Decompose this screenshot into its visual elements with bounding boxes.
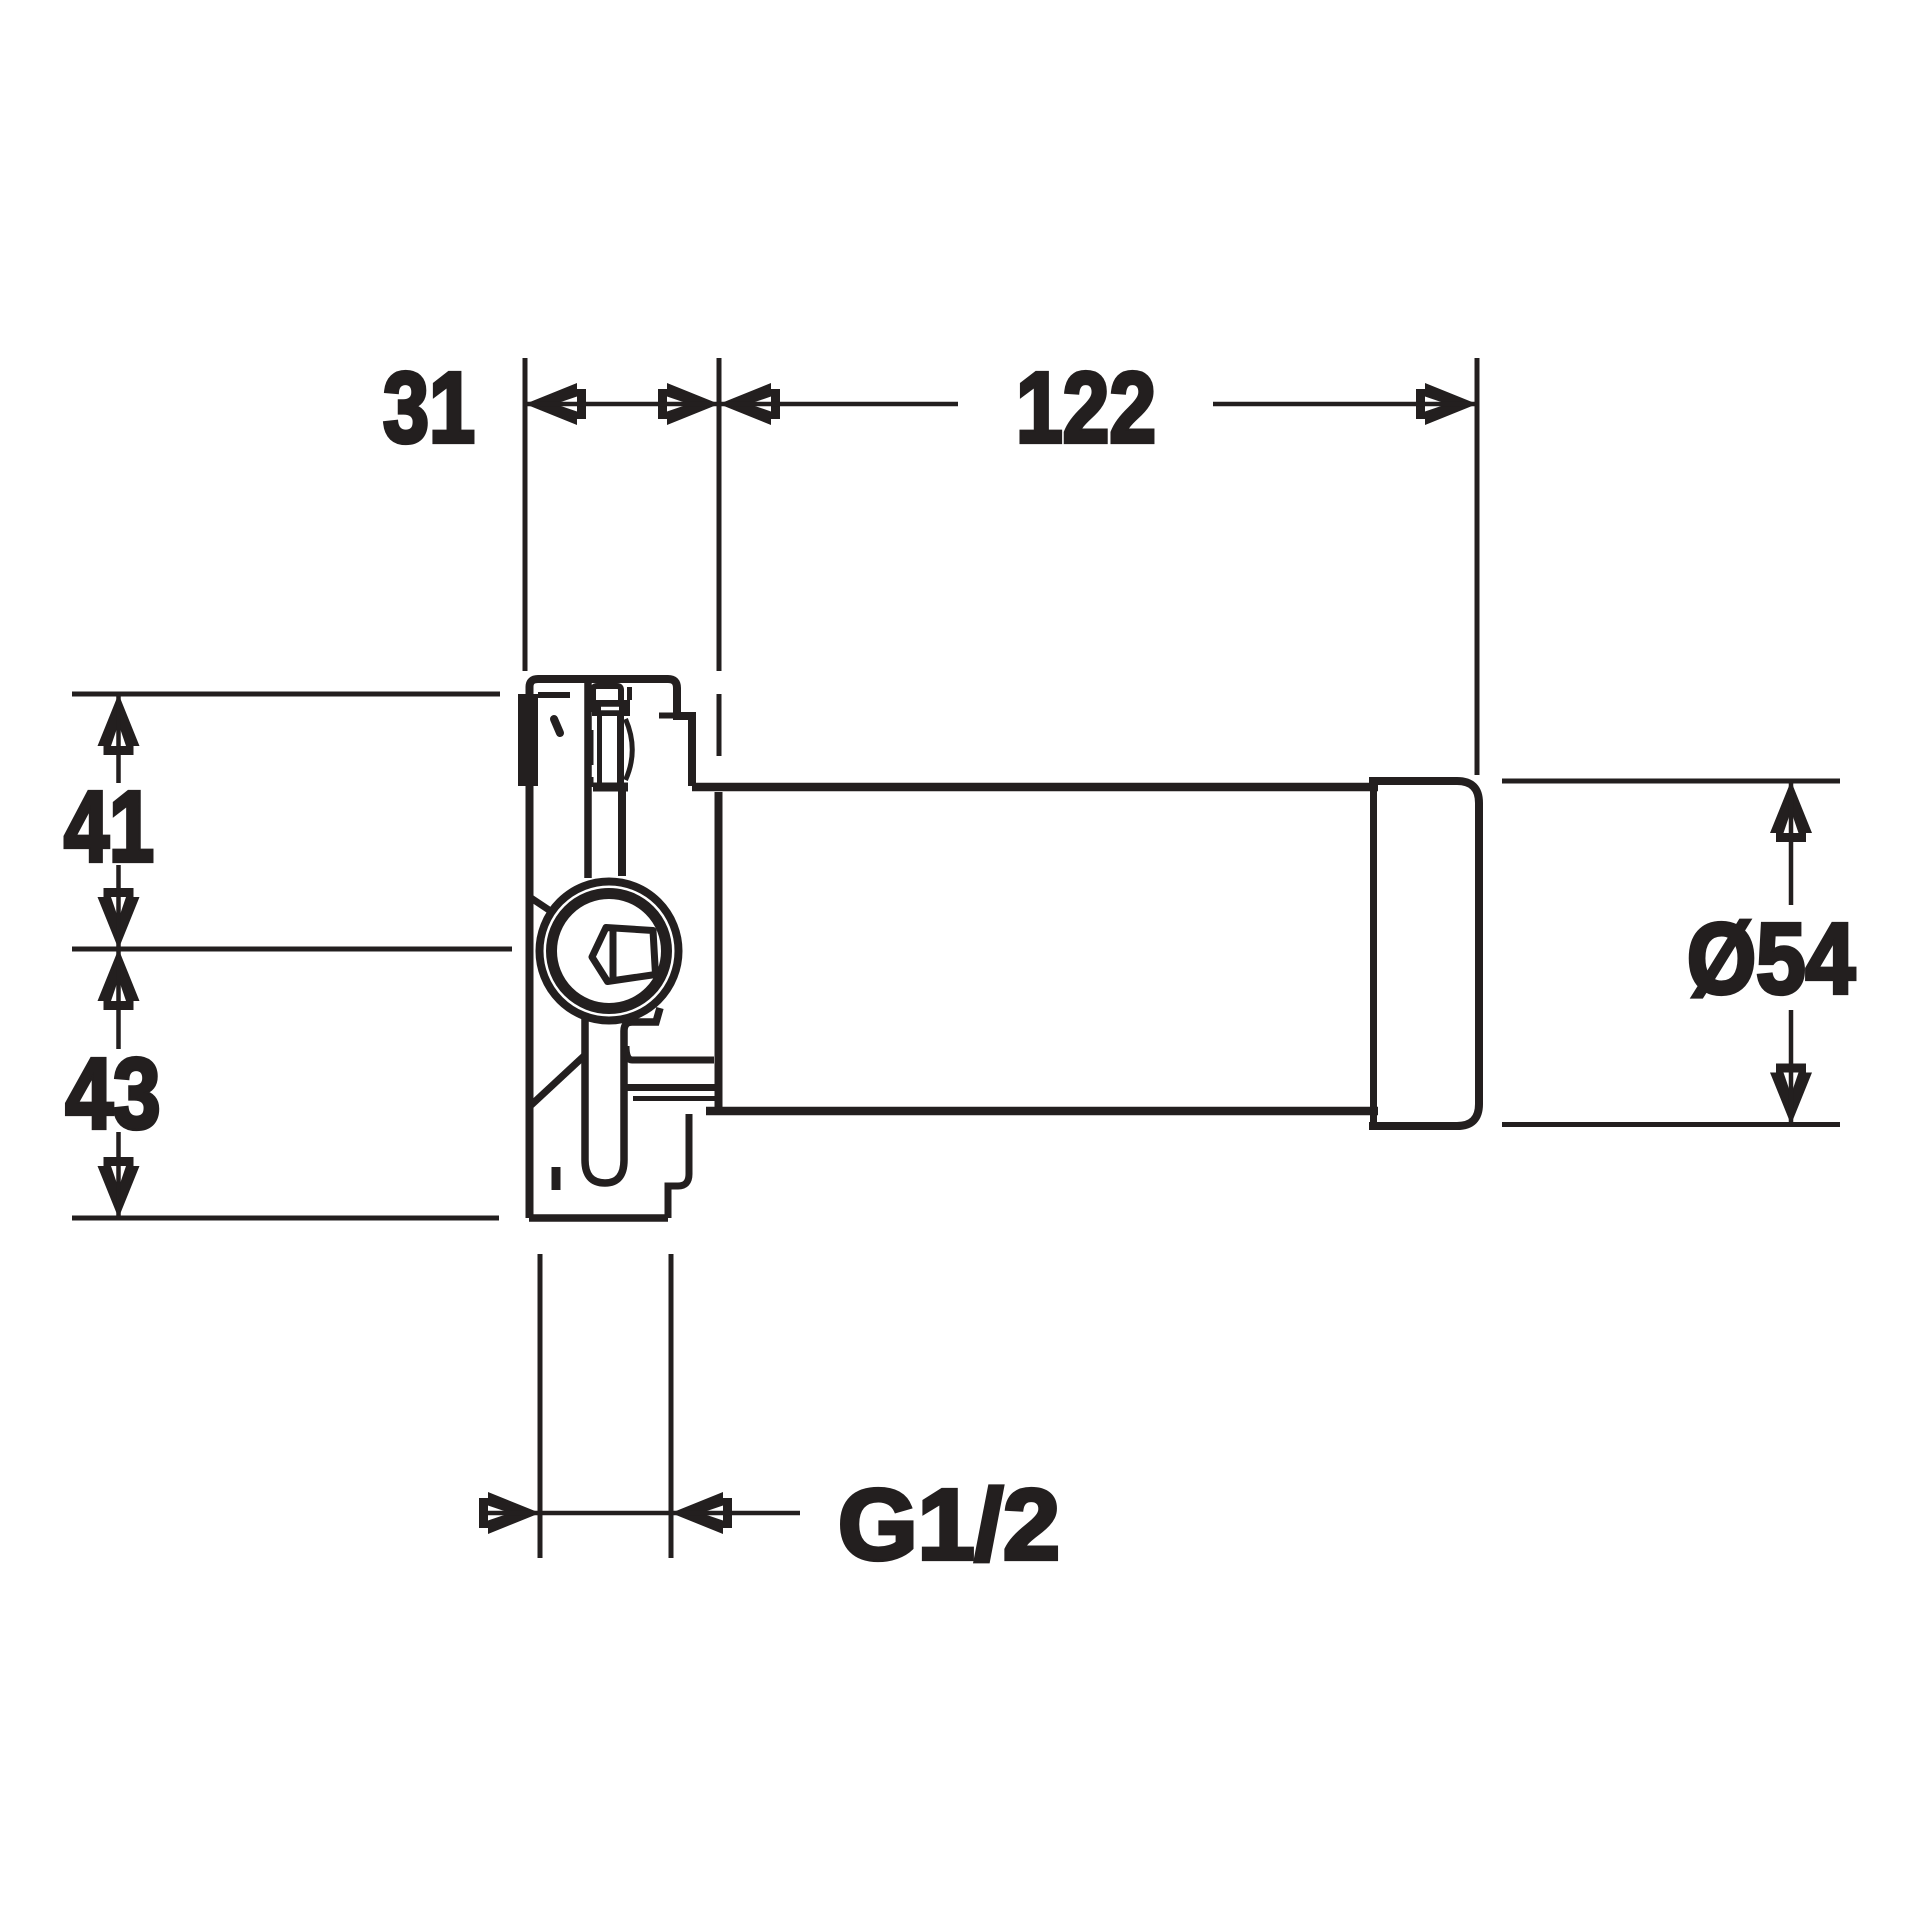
svg-text:122: 122 bbox=[1016, 352, 1156, 464]
ledge right of tab bbox=[538, 692, 570, 698]
bracket line D2 lower right bbox=[626, 1084, 715, 1091]
clamp stem bottom bar bbox=[593, 783, 628, 792]
arrowhead dim 41 bottom bbox=[98, 888, 140, 949]
extension line right of dim 122 bbox=[1475, 358, 1480, 775]
bracket line C lower right bbox=[626, 1046, 714, 1060]
cam bulge curve bbox=[626, 719, 633, 780]
arrowhead dim 122 right bbox=[1416, 383, 1477, 425]
arrowhead dim G1/2 left bbox=[479, 1492, 540, 1534]
clamp screw washer band bbox=[592, 700, 630, 716]
extension line right of dim G1/2 bbox=[669, 1254, 674, 1558]
protection cap body bbox=[1369, 781, 1479, 1126]
svg-text:43: 43 bbox=[66, 1038, 161, 1150]
arrowhead dim 122 left bbox=[719, 383, 780, 425]
arrowhead dim diameter 54 top bbox=[1770, 781, 1812, 842]
dimension line 31 and 122 bbox=[525, 402, 958, 407]
vertical edge right of screw head bbox=[627, 687, 632, 700]
svg-text:G1/2: G1/2 bbox=[838, 1469, 1060, 1581]
arrowhead dim 43 bottom bbox=[98, 1157, 140, 1218]
inner step line upper right bbox=[659, 713, 678, 719]
flange outline with left edge and top cap bbox=[530, 679, 693, 1218]
small tick mark upper flange bbox=[554, 719, 560, 733]
white separation arc between circles bbox=[545, 887, 673, 1015]
small tick mark lower flange bbox=[552, 1167, 561, 1190]
cylinder top edge bbox=[692, 783, 1378, 792]
U-slot below circle bbox=[585, 1008, 660, 1183]
arrowhead dim 31 left bbox=[525, 383, 586, 425]
union nut back edge bbox=[715, 792, 723, 1113]
spindle wedge vertical edge bbox=[610, 931, 617, 979]
spindle wedge inside circle bbox=[592, 928, 656, 982]
protection cap left edge bbox=[1370, 778, 1377, 1130]
svg-text:31: 31 bbox=[383, 352, 475, 464]
dimension line 41 and 43 bbox=[116, 694, 121, 1218]
svg-text:41: 41 bbox=[64, 771, 154, 883]
broken clamp edge dashes bbox=[589, 700, 594, 787]
lower right step of flange bbox=[668, 1114, 689, 1218]
extension line bottom of dim diameter 54 bbox=[1502, 1122, 1840, 1127]
extension line left of dim 31 bbox=[523, 358, 528, 671]
arrowhead dim 43 top bbox=[98, 949, 140, 1010]
extension line left of dim G1/2 bbox=[538, 1254, 543, 1558]
arrowhead dim diameter 54 bottom bbox=[1770, 1064, 1812, 1125]
screw slot left side bbox=[597, 716, 602, 783]
chamfer from left edge to circle (top) bbox=[531, 898, 549, 910]
arrowhead dim 31 right bbox=[658, 383, 719, 425]
screw slot right side bbox=[617, 716, 624, 783]
right stem line above circle bbox=[618, 786, 626, 876]
washer band white split line bbox=[601, 707, 619, 711]
arrowhead dim G1/2 right bbox=[671, 1492, 732, 1534]
extension line shared by dim 31 and 122 bbox=[717, 358, 722, 756]
svg-text:Ø54: Ø54 bbox=[1687, 903, 1855, 1015]
chamfer from U-slot to left edge (bottom) bbox=[528, 1056, 584, 1108]
extension line top of dim 41 bbox=[72, 692, 500, 697]
dimension line 122 right segment bbox=[1213, 402, 1477, 407]
valve boss outer circle bbox=[540, 882, 679, 1021]
flange bottom edge bbox=[529, 1214, 668, 1222]
extension line top of dim diameter 54 bbox=[1502, 779, 1840, 784]
cylinder bottom edge bbox=[706, 1107, 1378, 1116]
arrowhead dim 41 top bbox=[98, 694, 140, 755]
clamp screw head bbox=[593, 686, 621, 703]
front wall line of flange bbox=[584, 683, 592, 878]
dimension line G1/2 with leader bbox=[485, 1511, 800, 1516]
left mounting plate tab bbox=[518, 694, 538, 786]
bracket line D3 lower right bbox=[633, 1096, 715, 1101]
extension line bottom of dim 43 bbox=[72, 1216, 499, 1221]
dimension line diameter 54 bbox=[1789, 781, 1794, 1125]
valve boss inner circle bbox=[552, 894, 667, 1009]
extension line middle shared by dim 41 and 43 bbox=[72, 947, 512, 952]
